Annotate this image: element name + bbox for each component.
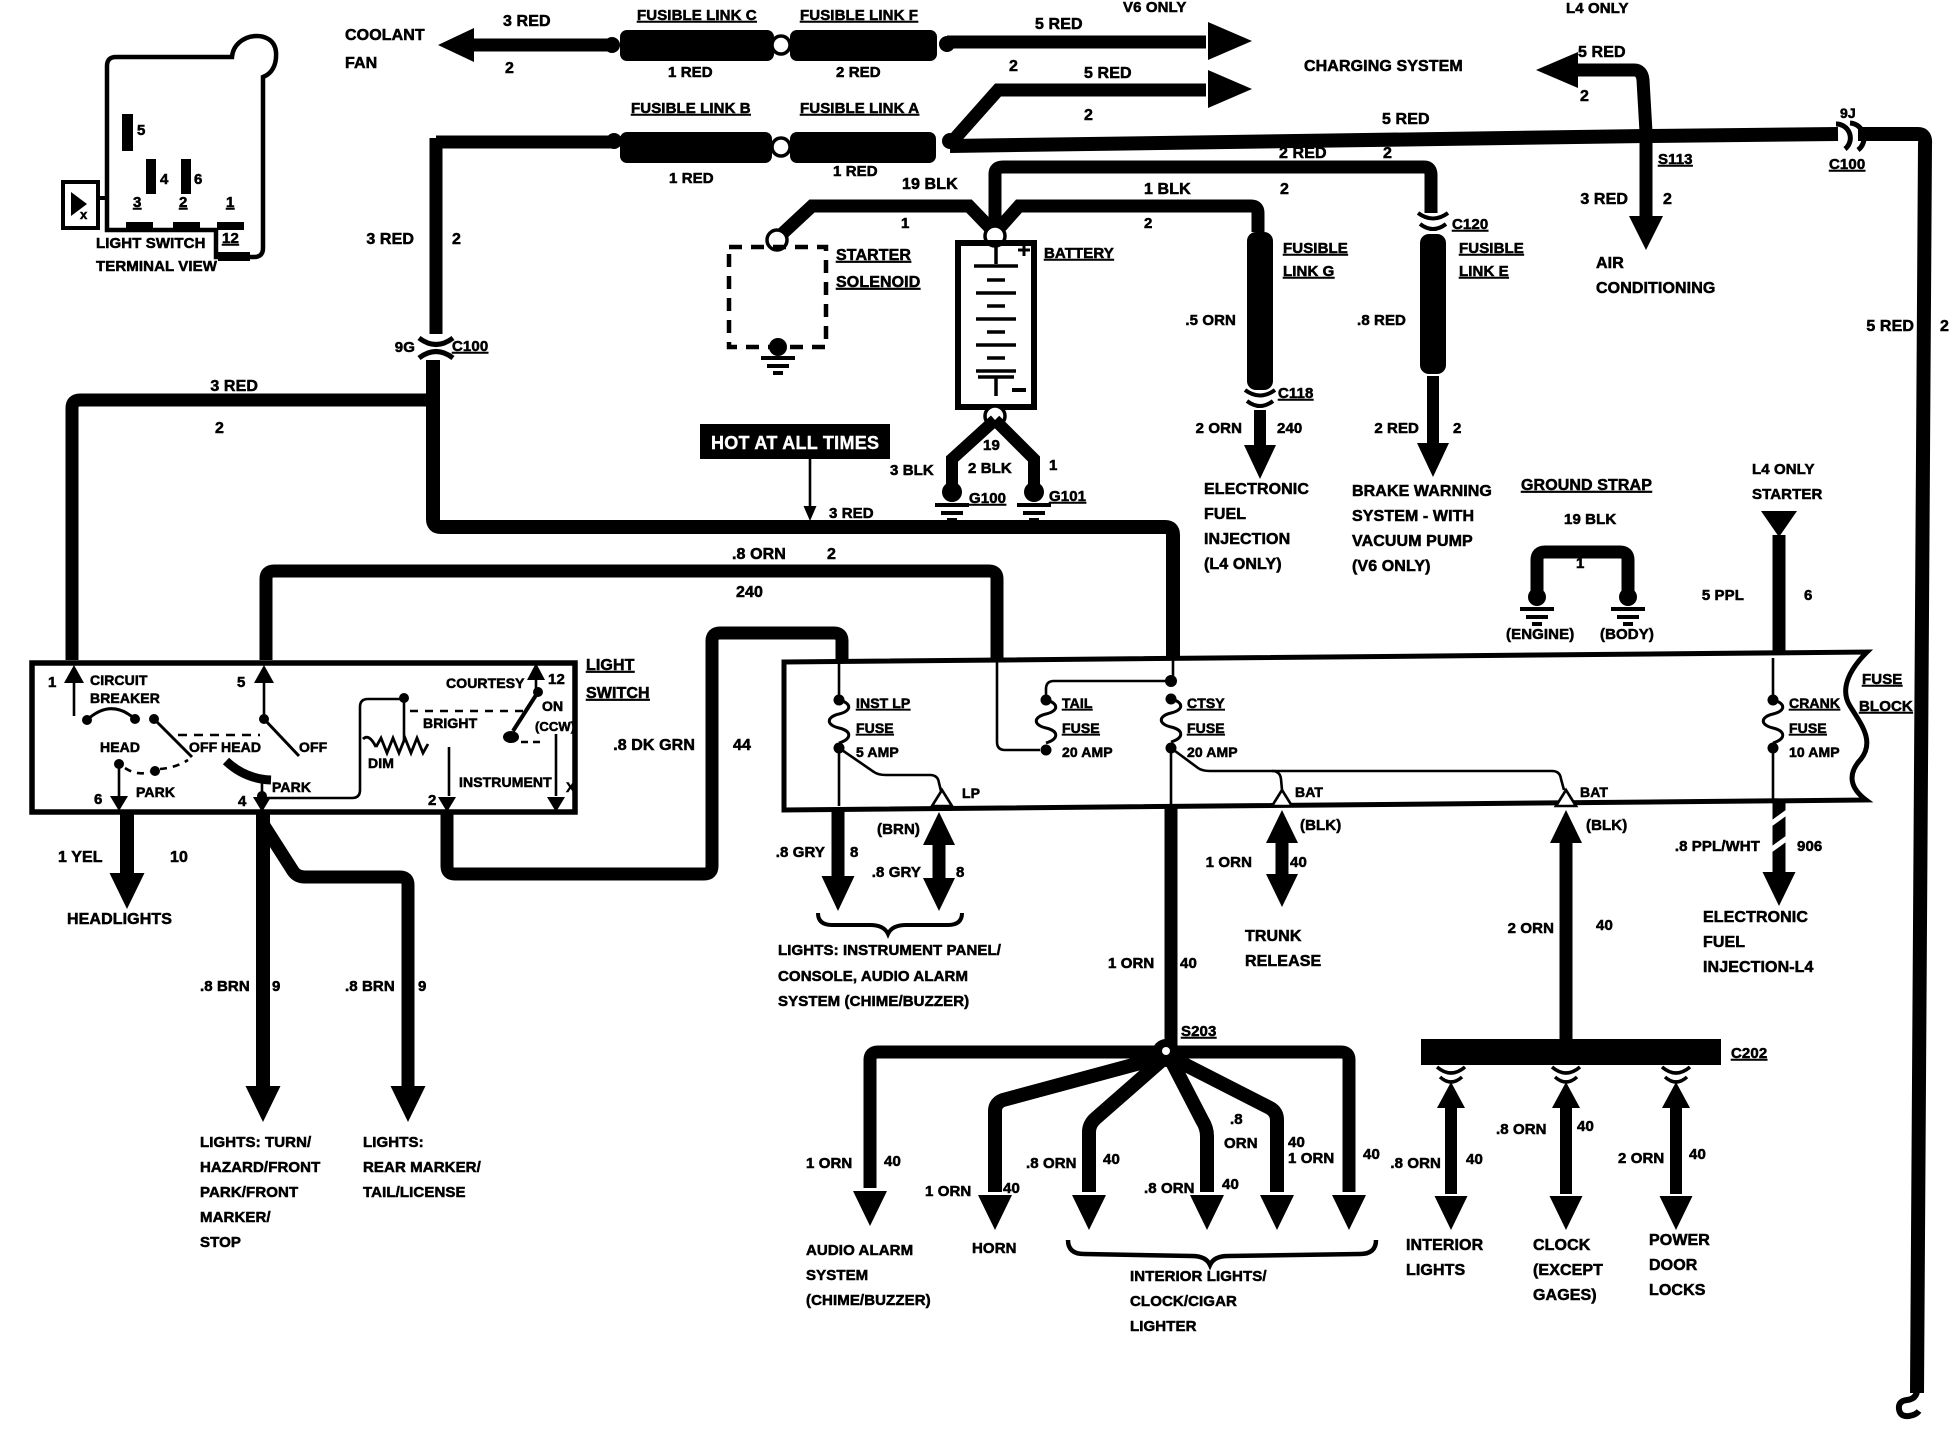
svg-text:40: 40 [1288, 1134, 1305, 1151]
svg-text:FUSIBLE LINK A: FUSIBLE LINK A [800, 100, 919, 117]
svg-text:.8 PPL/WHT: .8 PPL/WHT [1675, 838, 1760, 855]
main 5 RED feed wire to S113 and C100 [950, 134, 1838, 146]
svg-text:2: 2 [428, 792, 436, 809]
wire: .8 GRY 8 instrument lights [838, 748, 841, 806]
terminal BAT (C202 feed) [1556, 790, 1576, 806]
wire: 1 ORN 40 interior branch 4 [1174, 1052, 1349, 1192]
svg-text:240: 240 [1277, 420, 1302, 437]
svg-text:2: 2 [1453, 420, 1461, 437]
C202 drop to clock [1552, 1067, 1580, 1073]
svg-text:STARTER: STARTER [836, 247, 911, 264]
svg-text:8: 8 [956, 864, 964, 881]
svg-text:G101: G101 [1049, 488, 1086, 505]
wire: .8 DK GRN 44 from terminal 2 to INST LP fuse [447, 633, 842, 874]
svg-text:POWER: POWER [1649, 1232, 1710, 1249]
CTSY fuse [1172, 660, 1175, 681]
svg-text:CLOCK: CLOCK [1533, 1237, 1591, 1254]
svg-text:GAGES): GAGES) [1533, 1287, 1597, 1304]
connector keying tab [63, 182, 98, 228]
svg-text:BRAKE WARNING: BRAKE WARNING [1352, 483, 1492, 500]
wire: 1 ORN 40 to audio alarm [870, 1052, 1158, 1188]
pin 4 [146, 159, 156, 194]
battery box [958, 243, 1034, 407]
svg-text:HORN: HORN [972, 1240, 1017, 1257]
svg-text:40: 40 [1180, 955, 1197, 972]
svg-text:5 PPL: 5 PPL [1702, 587, 1744, 604]
svg-text:AIR: AIR [1596, 255, 1624, 272]
svg-text:2: 2 [452, 231, 461, 248]
svg-text:LINK G: LINK G [1283, 263, 1334, 280]
svg-text:1 YEL: 1 YEL [58, 849, 103, 866]
svg-text:(ENGINE): (ENGINE) [1506, 626, 1574, 643]
svg-text:AUDIO ALARM: AUDIO ALARM [806, 1242, 913, 1259]
svg-text:3 RED: 3 RED [829, 505, 874, 522]
svg-text:1 ORN: 1 ORN [1206, 854, 1252, 871]
wire: 2 ORN to electronic fuel injection [1254, 410, 1266, 446]
svg-text:2: 2 [179, 194, 187, 211]
svg-text:LOCKS: LOCKS [1649, 1282, 1706, 1299]
svg-text:C120: C120 [1452, 216, 1488, 233]
fusible link B [620, 132, 772, 163]
wire: 5 RED down right edge of page [1858, 134, 1925, 1393]
svg-text:.8 ORN: .8 ORN [1026, 1155, 1077, 1172]
svg-text:1 ORN: 1 ORN [925, 1183, 971, 1200]
svg-text:.8 BRN: .8 BRN [200, 978, 250, 995]
svg-text:ELECTRONIC: ELECTRONIC [1703, 909, 1808, 926]
ground (body) [1619, 588, 1637, 606]
svg-text:REAR MARKER/: REAR MARKER/ [363, 1159, 482, 1176]
svg-text:SWITCH: SWITCH [586, 685, 650, 702]
svg-text:C118: C118 [1278, 385, 1313, 402]
svg-text:LIGHTS:: LIGHTS: [363, 1134, 424, 1151]
starter solenoid dashed box [729, 247, 826, 347]
fuse block outline [784, 652, 1867, 810]
svg-text:.8 RED: .8 RED [1357, 312, 1406, 329]
svg-text:L4 ONLY: L4 ONLY [1752, 461, 1815, 478]
svg-text:2: 2 [215, 420, 224, 437]
gang dashes between poles [178, 734, 260, 737]
svg-text:C202: C202 [1731, 1045, 1767, 1062]
svg-text:1: 1 [226, 194, 234, 211]
wire: 1 YEL to headlights [120, 812, 134, 874]
svg-text:ELECTRONIC: ELECTRONIC [1204, 481, 1309, 498]
svg-text:1 ORN: 1 ORN [1108, 955, 1154, 972]
svg-text:OFF: OFF [189, 739, 218, 755]
svg-text:2: 2 [1580, 88, 1589, 105]
svg-text:STOP: STOP [200, 1234, 241, 1251]
svg-text:.8 ORN: .8 ORN [1144, 1180, 1195, 1197]
svg-text:19 BLK: 19 BLK [902, 176, 958, 193]
svg-text:SYSTEM - WITH: SYSTEM - WITH [1352, 508, 1474, 525]
svg-text:L4 ONLY: L4 ONLY [1566, 0, 1629, 17]
svg-text:CONSOLE, AUDIO ALARM: CONSOLE, AUDIO ALARM [778, 968, 968, 985]
svg-text:CONDITIONING: CONDITIONING [1596, 280, 1715, 297]
svg-text:FUSE: FUSE [1062, 720, 1100, 736]
svg-text:2: 2 [1280, 181, 1289, 198]
TAIL fuse [1041, 695, 1052, 706]
svg-text:CRANK: CRANK [1789, 695, 1840, 711]
svg-text:3 BLK: 3 BLK [890, 462, 934, 479]
svg-text:3 RED: 3 RED [1580, 191, 1628, 208]
svg-text:(BLK): (BLK) [1300, 817, 1341, 834]
svg-text:INJECTION: INJECTION [1204, 531, 1290, 548]
svg-text:2 BLK: 2 BLK [968, 460, 1012, 477]
svg-text:1 RED: 1 RED [669, 170, 714, 187]
svg-text:(BODY): (BODY) [1600, 626, 1654, 643]
svg-text:1 BLK: 1 BLK [1144, 181, 1191, 198]
svg-text:(EXCEPT: (EXCEPT [1533, 1262, 1603, 1279]
svg-text:1 RED: 1 RED [833, 163, 878, 180]
starter solenoid terminal [767, 230, 787, 250]
svg-text:5 RED: 5 RED [1084, 65, 1132, 82]
svg-text:TRUNK: TRUNK [1245, 928, 1302, 945]
svg-text:INST LP: INST LP [856, 695, 910, 711]
svg-text:4: 4 [160, 171, 169, 188]
svg-text:CLOCK/CIGAR: CLOCK/CIGAR [1130, 1293, 1237, 1310]
ground inside starter solenoid [769, 338, 787, 356]
svg-text:SYSTEM (CHIME/BUZZER): SYSTEM (CHIME/BUZZER) [778, 993, 969, 1010]
svg-text:20 AMP: 20 AMP [1062, 744, 1113, 760]
svg-text:DIM: DIM [368, 755, 394, 771]
svg-text:COURTESY: COURTESY [446, 675, 525, 691]
connector C100 (left) [419, 338, 453, 345]
wire: 1 ORN 40 trunk release [1266, 810, 1298, 843]
svg-text:4: 4 [238, 793, 247, 810]
svg-text:LINK E: LINK E [1459, 263, 1509, 280]
svg-text:5 RED: 5 RED [1382, 111, 1430, 128]
svg-text:3 RED: 3 RED [366, 231, 414, 248]
svg-text:5 RED: 5 RED [1578, 44, 1626, 61]
svg-text:240: 240 [736, 584, 763, 601]
wire down to air conditioning [1640, 140, 1653, 216]
svg-text:HOT AT ALL TIMES: HOT AT ALL TIMES [711, 433, 879, 453]
svg-text:1: 1 [48, 674, 56, 691]
svg-text:.8 GRY: .8 GRY [776, 844, 825, 861]
wire: .8 ORN 40 interior branch 2 [1172, 1062, 1207, 1192]
svg-text:6: 6 [194, 171, 202, 188]
wire: 2 RED to brake warning system [1427, 376, 1439, 444]
svg-text:RELEASE: RELEASE [1245, 953, 1321, 970]
HOT AT ALL TIMES flag [700, 424, 890, 459]
svg-text:LIGHT SWITCH: LIGHT SWITCH [96, 235, 206, 252]
wire: .8 BRN to front lights [256, 812, 270, 1086]
svg-text:ON: ON [542, 698, 563, 714]
splice S113 [1637, 127, 1655, 145]
svg-text:3 RED: 3 RED [210, 378, 258, 395]
svg-text:.8 GRY: .8 GRY [872, 864, 921, 881]
svg-text:INJECTION-L4: INJECTION-L4 [1703, 959, 1814, 976]
fusible link E [1420, 234, 1446, 374]
svg-text:FUSIBLE LINK F: FUSIBLE LINK F [800, 7, 918, 24]
svg-text:FUSIBLE: FUSIBLE [1459, 240, 1524, 257]
svg-text:BRIGHT: BRIGHT [423, 715, 478, 731]
CRANK fuse [1772, 658, 1775, 700]
svg-text:SYSTEM: SYSTEM [806, 1267, 868, 1284]
wire: 5 RED branch to charging system [950, 90, 1206, 144]
svg-text:STARTER: STARTER [1752, 486, 1822, 503]
svg-text:PARK/FRONT: PARK/FRONT [200, 1184, 298, 1201]
light switch terminal-view connector outline [107, 36, 276, 257]
fusible link A [790, 132, 936, 163]
svg-text:V6 ONLY: V6 ONLY [1123, 0, 1187, 16]
svg-text:40: 40 [1003, 1180, 1020, 1197]
svg-text:8: 8 [850, 844, 858, 861]
wire to coolant fan with arrow [472, 39, 610, 52]
connector C202 [1421, 1039, 1721, 1065]
battery top node [985, 226, 1005, 246]
svg-text:12: 12 [548, 671, 565, 688]
pin 6 [181, 159, 191, 194]
light switch box [32, 663, 575, 812]
svg-text:2 ORN: 2 ORN [1196, 420, 1242, 437]
svg-text:(CHIME/BUZZER): (CHIME/BUZZER) [806, 1292, 931, 1309]
svg-text:1 ORN: 1 ORN [806, 1155, 852, 1172]
svg-text:HEAD: HEAD [100, 739, 140, 755]
wire: (BRN) .8 GRY 8 [923, 812, 955, 845]
svg-text:2 RED: 2 RED [1279, 145, 1327, 162]
wire: 19 BLK from battery node to starter solenoid [783, 206, 995, 233]
svg-text:1 RED: 1 RED [668, 64, 713, 81]
svg-text:44: 44 [733, 737, 751, 754]
svg-text:BAT: BAT [1580, 784, 1608, 800]
svg-text:40: 40 [1577, 1118, 1594, 1135]
fusible link C [620, 30, 774, 61]
svg-text:5: 5 [237, 674, 245, 691]
brace interior lights [1068, 1240, 1376, 1265]
svg-text:2: 2 [1084, 107, 1093, 124]
svg-text:40: 40 [1466, 1151, 1483, 1168]
svg-text:2: 2 [827, 546, 836, 563]
svg-text:C100: C100 [1829, 156, 1865, 173]
svg-text:FUSE: FUSE [1862, 671, 1902, 688]
svg-text:FUEL: FUEL [1703, 934, 1745, 951]
svg-text:INSTRUMENT: INSTRUMENT [459, 774, 552, 790]
svg-text:FUEL: FUEL [1204, 506, 1246, 523]
svg-text:OFF: OFF [299, 739, 328, 755]
svg-text:DOOR: DOOR [1649, 1257, 1698, 1274]
svg-text:19: 19 [983, 437, 1000, 454]
svg-text:2: 2 [505, 60, 514, 77]
svg-text:SOLENOID: SOLENOID [836, 274, 920, 291]
svg-text:5 RED: 5 RED [1866, 318, 1914, 335]
svg-text:3 RED: 3 RED [503, 13, 551, 30]
wire: 1 ORN 40 from CTSY fuse to S203 [1165, 808, 1178, 1046]
svg-text:GROUND STRAP: GROUND STRAP [1521, 477, 1652, 494]
svg-text:MARKER/: MARKER/ [200, 1209, 271, 1226]
svg-text:HEAD: HEAD [221, 739, 261, 755]
svg-text:(CCW): (CCW) [535, 719, 575, 734]
svg-text:9: 9 [418, 978, 426, 995]
svg-text:PARK: PARK [272, 779, 311, 795]
svg-text:ORN: ORN [1224, 1135, 1258, 1152]
battery bottom node [985, 406, 1005, 426]
C202 drop to power door locks [1662, 1067, 1690, 1073]
wire: 3 RED riser from link B lead down to C100 [430, 138, 443, 334]
svg-text:5: 5 [137, 122, 145, 139]
svg-text:INTERIOR: INTERIOR [1406, 1237, 1484, 1254]
fusible link F [790, 30, 937, 61]
svg-text:FUSIBLE LINK B: FUSIBLE LINK B [631, 100, 751, 117]
svg-text:BLOCK: BLOCK [1859, 698, 1913, 715]
battery plates [974, 247, 1018, 266]
svg-text:C100: C100 [452, 338, 488, 355]
svg-text:2: 2 [1940, 318, 1949, 335]
svg-text:6: 6 [1804, 587, 1812, 604]
svg-text:BATTERY: BATTERY [1044, 245, 1114, 262]
svg-text:2 ORN: 2 ORN [1618, 1150, 1664, 1167]
svg-text:40: 40 [1596, 917, 1613, 934]
connector C118 [1245, 390, 1275, 396]
wires to grounds G100/G101 [952, 420, 995, 487]
svg-text:BREAKER: BREAKER [90, 690, 160, 706]
svg-text:(V6 ONLY): (V6 ONLY) [1352, 558, 1431, 575]
svg-text:9J: 9J [1840, 105, 1856, 121]
svg-text:(BRN): (BRN) [877, 821, 920, 838]
svg-text:5 AMP: 5 AMP [856, 744, 899, 760]
ground (engine) [1528, 588, 1546, 606]
svg-text:.8 ORN: .8 ORN [1390, 1155, 1441, 1172]
wire: .8 ORN 40 interior branch 3 [1174, 1059, 1277, 1192]
svg-text:1: 1 [901, 215, 909, 232]
wire: .8 BRN to rear lights [263, 824, 408, 1086]
svg-text:2 RED: 2 RED [836, 64, 881, 81]
svg-text:INTERIOR LIGHTS/: INTERIOR LIGHTS/ [1130, 1268, 1267, 1285]
svg-text:40: 40 [1222, 1176, 1239, 1193]
svg-text:S203: S203 [1181, 1023, 1216, 1040]
wire: 5 RED to V6 only [947, 36, 1206, 49]
wire from CTSY fuse to BAT terminals [1171, 748, 1564, 790]
svg-text:COOLANT: COOLANT [345, 27, 425, 44]
svg-text:20 AMP: 20 AMP [1187, 744, 1238, 760]
svg-text:X: X [566, 779, 576, 795]
svg-text:10 AMP: 10 AMP [1789, 744, 1840, 760]
wire: .8 ORN 240 from light switch terminal 5 to tail fuse [266, 571, 997, 660]
svg-text:1: 1 [1049, 457, 1057, 474]
svg-text:CHARGING SYSTEM: CHARGING SYSTEM [1304, 58, 1463, 75]
svg-text:40: 40 [1290, 854, 1307, 871]
wire from C100 riser to fusible link B [436, 136, 614, 149]
svg-text:5 RED: 5 RED [1035, 16, 1083, 33]
svg-text:LIGHTS: INSTRUMENT PANEL/: LIGHTS: INSTRUMENT PANEL/ [778, 942, 1002, 959]
svg-text:.8 ORN: .8 ORN [732, 546, 786, 563]
wire: 1 BLK from battery node to fusible link G [995, 206, 1258, 233]
svg-text:.8 DK GRN: .8 DK GRN [613, 737, 695, 754]
C202 drop to interior lights [1437, 1067, 1465, 1073]
svg-text:TERMINAL VIEW: TERMINAL VIEW [96, 258, 218, 275]
svg-text:LP: LP [962, 785, 980, 801]
terminal BAT (trunk release) [1272, 790, 1292, 806]
svg-text:LIGHTS: TURN/: LIGHTS: TURN/ [200, 1134, 312, 1151]
svg-text:9G: 9G [395, 339, 415, 356]
svg-text:10: 10 [170, 849, 188, 866]
svg-text:2: 2 [1383, 145, 1392, 162]
svg-text:906: 906 [1797, 838, 1822, 855]
svg-text:FUSIBLE: FUSIBLE [1283, 240, 1348, 257]
svg-text:.8: .8 [1230, 1111, 1243, 1128]
svg-text:2 ORN: 2 ORN [1508, 920, 1554, 937]
svg-text:40: 40 [1689, 1146, 1706, 1163]
wire: 1 ORN 40 to horn [995, 1058, 1159, 1192]
svg-text:FUSE: FUSE [1789, 720, 1827, 736]
svg-text:40: 40 [1363, 1146, 1380, 1163]
svg-text:.8 ORN: .8 ORN [1496, 1121, 1547, 1138]
svg-text:9: 9 [272, 978, 280, 995]
svg-text:LIGHT: LIGHT [586, 657, 635, 674]
svg-text:.8 BRN: .8 BRN [345, 978, 395, 995]
brace instrument lights [818, 913, 962, 934]
wire from INST LP fuse to LP terminal [839, 748, 941, 791]
svg-text:S113: S113 [1658, 151, 1693, 168]
wire: 3 RED hot feed across to fuse block [433, 360, 1173, 660]
svg-text:40: 40 [1103, 1151, 1120, 1168]
svg-text:HAZARD/FRONT: HAZARD/FRONT [200, 1159, 320, 1176]
svg-text:FUSE: FUSE [1187, 720, 1225, 736]
svg-text:1 ORN: 1 ORN [1288, 1150, 1334, 1167]
svg-text:40: 40 [884, 1153, 901, 1170]
svg-text:x: x [80, 207, 88, 222]
svg-text:LIGHTER: LIGHTER [1130, 1318, 1197, 1335]
svg-text:2 RED: 2 RED [1374, 420, 1419, 437]
fusible link G [1247, 232, 1273, 390]
rheostat DIM/BRIGHT [262, 699, 404, 798]
svg-text:PARK: PARK [136, 784, 175, 800]
svg-text:FAN: FAN [345, 55, 377, 72]
connector C120 [1418, 213, 1448, 219]
svg-text:19 BLK: 19 BLK [1564, 511, 1616, 528]
wire: .8 PPL/WHT 906 crank fuse output [1773, 803, 1786, 872]
wire: 2 ORN 40 to C202 [1550, 810, 1582, 843]
INST LP fuse [838, 662, 841, 700]
svg-text:(L4 ONLY): (L4 ONLY) [1204, 556, 1282, 573]
circuit breaker [73, 681, 76, 716]
svg-text:1: 1 [1576, 555, 1584, 572]
pin 5 [122, 114, 133, 151]
ground G100 [942, 482, 962, 502]
svg-text:LIGHTS: LIGHTS [1406, 1262, 1465, 1279]
wire: .8 ORN 40 interior branch 1 [1089, 1061, 1161, 1192]
svg-text:G100: G100 [969, 490, 1006, 507]
svg-text:12: 12 [222, 230, 239, 247]
svg-text:FUSIBLE LINK C: FUSIBLE LINK C [637, 7, 757, 24]
svg-text:BAT: BAT [1295, 784, 1323, 800]
svg-text:3: 3 [133, 194, 141, 211]
svg-text:TAIL: TAIL [1062, 695, 1093, 711]
svg-text:.5 ORN: .5 ORN [1185, 312, 1236, 329]
svg-text:2: 2 [1009, 58, 1018, 75]
svg-text:VACUUM PUMP: VACUUM PUMP [1352, 533, 1473, 550]
svg-text:FUSE: FUSE [856, 720, 894, 736]
wire: 3 RED loop to light switch terminal 1 [72, 400, 440, 660]
ground G101 [1024, 482, 1044, 502]
svg-text:TAIL/LICENSE: TAIL/LICENSE [363, 1184, 466, 1201]
svg-text:2: 2 [1144, 215, 1152, 232]
terminal LP [932, 790, 952, 806]
svg-text:2: 2 [1663, 191, 1672, 208]
svg-text:(BLK): (BLK) [1586, 817, 1627, 834]
svg-text:HEADLIGHTS: HEADLIGHTS [67, 911, 172, 928]
wire: 2 RED from battery node to C120 [995, 167, 1431, 236]
svg-text:CTSY: CTSY [1187, 695, 1225, 711]
svg-text:6: 6 [94, 791, 102, 808]
svg-text:CIRCUIT: CIRCUIT [90, 672, 148, 688]
